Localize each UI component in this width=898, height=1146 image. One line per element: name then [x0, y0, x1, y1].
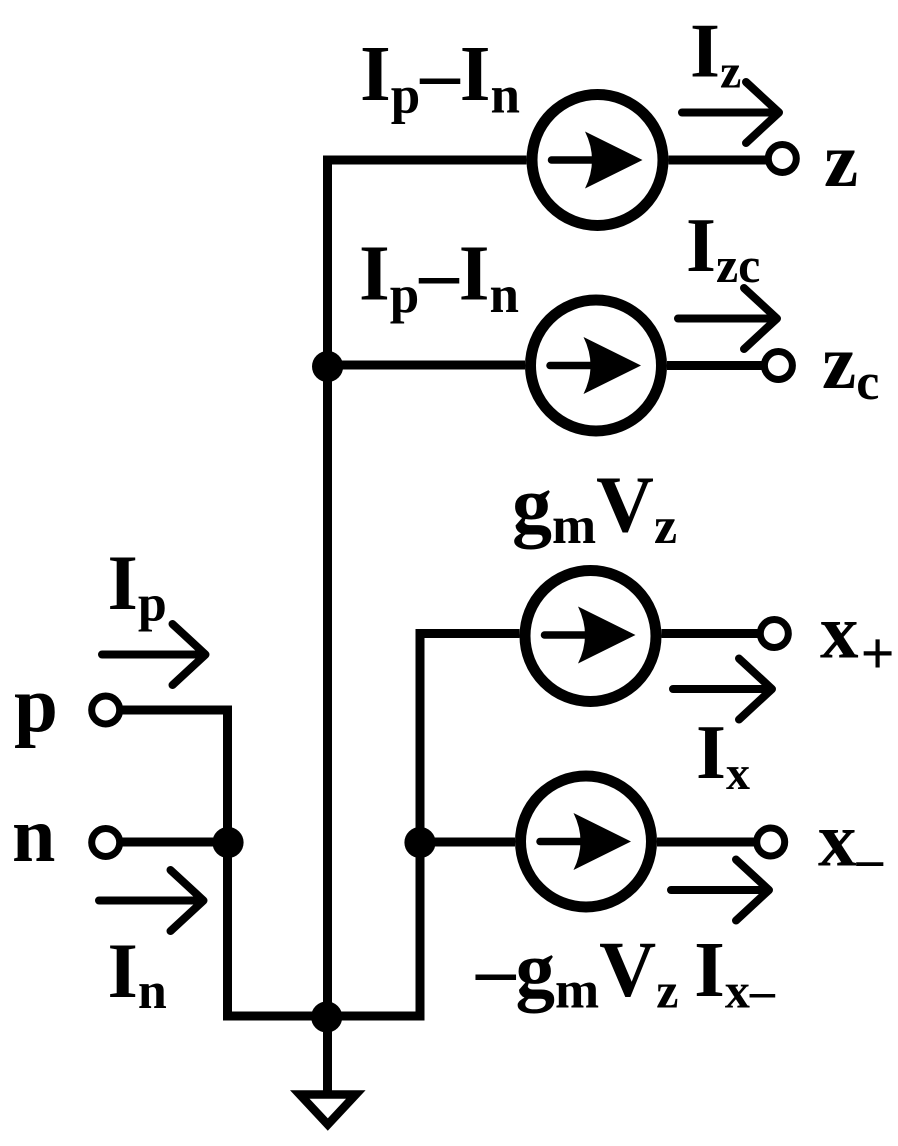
svg-text:zc: zc: [822, 319, 879, 411]
svg-text:In: In: [108, 927, 167, 1020]
svg-text:x–: x–: [818, 797, 884, 889]
svg-text:x +: x +: [820, 589, 895, 687]
svg-text:Izc: Izc: [686, 202, 760, 293]
svg-text:Iz: Iz: [690, 8, 741, 99]
svg-text:n: n: [12, 791, 55, 878]
svg-text:z: z: [824, 117, 858, 203]
svg-text:p: p: [14, 662, 58, 749]
svg-text:–gmVz Ix–: –gmVz Ix–: [475, 927, 776, 1020]
svg-text:Ip: Ip: [108, 539, 167, 633]
svg-text:Ix: Ix: [696, 709, 750, 800]
svg-text:gmVz: gmVz: [512, 462, 677, 556]
svg-text:Ip–In: Ip–In: [360, 31, 520, 125]
svg-text:Ip–In: Ip–In: [359, 231, 519, 325]
